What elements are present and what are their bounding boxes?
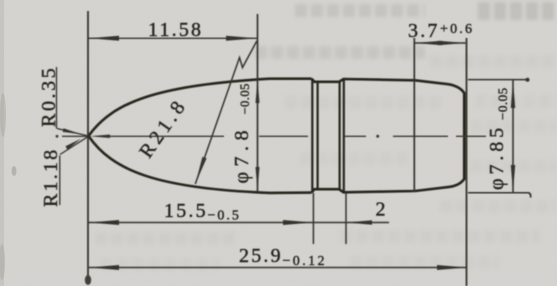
text R21.8 rotated	[135, 94, 192, 162]
phi7.85 extension lines top and bottom	[468, 79, 528, 81]
paper grain	[0, 0, 1, 1]
svg-text:φ7.8: φ7.8	[231, 125, 253, 184]
svg-text:R0.35: R0.35	[38, 66, 60, 127]
phi7.85 dimension line vertical	[512, 80, 514, 193]
arrow of R21.8 leader	[195, 157, 206, 184]
arrow left of 15.5	[89, 220, 120, 225]
leader R1.18	[60, 136, 89, 154]
arrow left of 3.7	[414, 41, 442, 45]
extension line of 3.7 left	[413, 38, 415, 192]
ghost bleed-through text rows (background texture)	[295, 4, 425, 17]
dimension 15.5 line	[89, 222, 314, 224]
arrow up of phi7.85	[511, 80, 515, 108]
arrow right of 25.9	[437, 265, 467, 270]
underline R1.18	[59, 156, 61, 206]
arrow right of 15.5	[283, 220, 313, 225]
tip arrow on centerline	[90, 135, 111, 139]
centerline dash-dot	[56, 135, 59, 138]
bullet outline: upper ogive curve	[89, 79, 312, 136]
bullet base edge	[463, 92, 465, 180]
svg-text:+0.6: +0.6	[440, 22, 474, 37]
arrow right of 3.7	[438, 41, 466, 45]
text phi7.85-0.05 rotated	[486, 87, 510, 190]
groove dimension extension lines	[312, 193, 314, 244]
dimension 2 line and arrow	[313, 222, 389, 224]
extension+phi7.8 dimension line at x=257.5	[257, 14, 259, 192]
svg-text:φ7.85: φ7.85	[486, 124, 508, 190]
ink blob at bottom of left extension line	[85, 275, 91, 285]
arrow left of 25.9	[89, 265, 119, 270]
phi7.8 diameter arrows on x=257.5	[256, 79, 260, 103]
svg-text:−0.05: −0.05	[495, 87, 510, 120]
text R0.35 rotated	[38, 66, 60, 127]
arrow right of 11.58	[226, 36, 257, 41]
groove line pair right	[339, 82, 341, 190]
bullet outline: cannelure recessed top edge	[312, 79, 465, 193]
svg-text:−0.12: −0.12	[283, 254, 327, 269]
dimension 25.9 line	[89, 267, 467, 269]
bullet outline: lower ogive curve	[89, 136, 312, 193]
svg-text:3.7: 3.7	[408, 20, 440, 42]
dimension 11.58 line	[89, 37, 257, 39]
text R1.18 rotated	[40, 148, 62, 207]
svg-text:R1.18: R1.18	[40, 148, 62, 207]
groove line pair left	[311, 79, 313, 192]
svg-text:−0.05: −0.05	[238, 83, 252, 114]
scan edge smudges	[0, 0, 4, 286]
svg-text:15.5: 15.5	[164, 200, 208, 222]
leader R21.8 with zigzag	[195, 41, 256, 184]
dimension 3.7 line	[414, 42, 465, 44]
svg-text:11.58: 11.58	[148, 19, 203, 41]
underline R0.35	[56, 67, 58, 129]
svg-text:2: 2	[376, 199, 386, 221]
arrow left of 11.58	[89, 36, 120, 41]
extension line right (base) full height	[466, 38, 468, 286]
arrow down of phi7.85	[511, 165, 515, 193]
text phi7.8-0.05 rotated	[231, 83, 253, 183]
svg-text:25.9: 25.9	[239, 245, 283, 267]
svg-text:−0.5: −0.5	[208, 209, 241, 224]
leader R0.35	[57, 129, 89, 137]
extension line left (tip) full height	[87, 11, 89, 282]
